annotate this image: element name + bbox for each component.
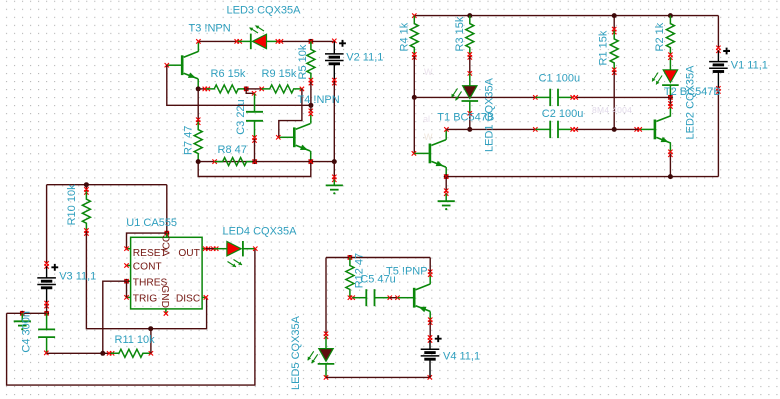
ground near C4 [14,320,31,322]
wire R10 to DISC [86,231,206,329]
wire junction to T1 base [413,97,415,153]
pin marks C1 right [571,95,575,99]
wire T1 collector to C2 [446,128,535,130]
battery pin V3 top [46,266,48,278]
pin marks T4 collector [309,109,313,113]
LED3 diode [238,40,251,42]
svg-text:R11 10k: R11 10k [115,334,156,346]
pin marks ground V2 [332,175,336,179]
pin mark R8 right [253,159,257,163]
resistor R2 [666,16,674,56]
pin marks R7 top [196,118,200,122]
battery pin V4 bottom [429,359,431,377]
pin mark C1 left [533,95,537,99]
wire junction to T2 collector [669,97,671,104]
LED3 light arrows [250,28,259,33]
capacitor C2 [549,121,551,138]
C5 right pin [375,297,390,299]
battery pin V1 top [717,51,719,62]
pin mark GND [164,311,168,315]
pin mark LED5 cathode [324,375,328,379]
pin mark R11 right [149,351,153,355]
battery V2 [325,53,344,55]
pin marks T5 emitter [428,318,432,322]
junction THRES riser / R11 [100,351,105,356]
wire lower loop [198,162,311,177]
pin marks R3 bottom [468,52,472,56]
pin mark C5 right [388,296,392,300]
wire R3 to LED1 [469,56,471,74]
wire OUT to LED4 [206,248,214,250]
junction T1 emitter / rail [444,174,449,179]
wire junction to R6 [198,88,206,90]
T2 emitter pin [669,143,671,153]
svg-text:W.: W. [424,67,435,77]
svg-text:LED5 CQX35A: LED5 CQX35A [290,315,302,390]
junction R12 top [347,255,352,260]
wire C3 bottom to rail [254,139,256,162]
wire junction row [7,312,47,314]
svg-text:T4 !NPN: T4 !NPN [298,94,340,106]
svg-text:C3 22u: C3 22u [235,99,247,134]
pin mark C2 left [533,127,537,131]
svg-text:R5 10k: R5 10k [297,44,309,79]
svg-text:R6 15k: R6 15k [211,68,246,80]
junction V3- / C4 [44,311,49,316]
pin mark CONT [124,263,128,267]
T4 collector pin [310,112,312,123]
LED1 (dark) [469,73,471,85]
svg-text:LED1 CQX35A: LED1 CQX35A [483,77,495,152]
resistor R6 [206,85,246,93]
svg-text:LED2 CQX35A: LED2 CQX35A [685,65,697,140]
pin marks C3 bottom [252,135,256,139]
pin marks T2 base [635,127,639,131]
pin marks T5 collector [428,270,432,274]
pin mark R6 right [244,87,248,91]
wire LED4 return loop [7,249,255,385]
svg-text:C5 47u: C5 47u [360,274,395,286]
pin mark V3- junction [44,311,48,315]
LED4 light arrows [234,260,243,265]
pin marks LED5 anode [324,332,328,336]
pin mark R9 right [300,87,304,91]
C4 bottom pin [46,337,48,353]
junction LED2 cathode / C1 row [668,95,673,100]
resistor R3 [466,16,474,56]
pin marks R1 top [612,27,616,31]
svg-text:R8 47: R8 47 [218,144,247,156]
junction R5 top [308,39,313,44]
pin marks LED3 cathode [235,39,239,43]
wire V1- down [717,91,719,177]
svg-text:C4 300n: C4 300n [21,311,33,353]
wire C1 row left [414,96,535,98]
C1 right pin [558,96,573,98]
op-amp U1 CA555 body [131,237,203,309]
resistor R12 [346,258,354,298]
LED2 (bright) [669,58,671,70]
wire rail to VCC [166,185,168,233]
svg-text:R9 15k: R9 15k [262,68,297,80]
pin marks R6 left [203,87,207,91]
wire rail to LED5 [325,258,327,335]
battery pin V4 top [429,340,431,349]
transistor T1 (NPN) [430,140,446,167]
junction T2 emitter / rail [668,174,673,179]
pin marks V3+ [44,261,48,265]
junction R8 right / C3 bottom [252,159,257,164]
wire bottom rail left circuit [198,161,334,163]
wire V3+ drop [46,185,48,265]
battery plus sign [723,48,730,55]
resistor R4 [410,16,418,56]
pin mark LED1 cathode [468,111,472,115]
pin marks V2- [332,78,336,82]
svg-text:R2 1k: R2 1k [654,22,666,51]
wire R9 to T4 base [279,89,302,137]
battery plus sign [435,335,442,342]
svg-text:VCC: VCC [162,235,173,257]
svg-text:OUT: OUT [178,248,200,259]
ground pin [333,180,335,186]
ground pin [445,194,447,202]
junction R7 bottom / rail [196,159,201,164]
resistor R5 [307,41,315,81]
pin marks R5 bottom [309,78,313,82]
pin mark T4 emitter [309,159,313,163]
pin marks R10 bottom [84,228,88,232]
pin mark T1 base [412,151,416,155]
svg-text:R7 47: R7 47 [183,126,195,155]
pin marks LED3 anode [276,39,280,43]
C1 left pin [535,96,550,98]
wire R6 junction to C3 top [246,89,254,93]
pin marks R4 bottom [412,52,416,56]
C5 left pin [352,297,366,299]
pin marks LED4 anode [211,247,215,251]
wire 555 top rail [47,184,167,186]
battery pin V2 top [333,41,335,54]
svg-text:TRIG: TRIG [133,294,157,305]
battery V3 [37,277,56,279]
pin mark T3 collector [196,39,200,43]
pin mark V2+ corner [332,39,336,43]
U1 OUT pin [202,248,206,250]
T2 base pin [639,128,654,130]
junction LED1 / T1 collector row [467,127,472,132]
wire junction to T4 collector [310,105,312,111]
battery plus sign [51,264,58,271]
svg-text:W: W [424,132,433,142]
ground pin [21,313,23,321]
ground under V2 [326,184,343,186]
pin mark R8 left [212,159,216,163]
svg-text:LED4 CQX35A: LED4 CQX35A [223,225,298,237]
pin marks V1+ [716,46,720,50]
svg-text:U1 CA555: U1 CA555 [126,217,177,229]
pin mark THRES [124,279,128,283]
battery pin V2 bottom [333,64,335,82]
svg-text:V3 11,1: V3 11,1 [59,270,96,282]
battery pin V1 bottom [717,72,719,90]
wire V3- to junction [46,305,48,313]
T1 collector pin [445,129,447,139]
junction R6 right / C3 [244,86,249,91]
junction long wire / R5 / T4 collector [308,103,313,108]
wire R4 to row [413,56,415,98]
pin mark T3 base [165,63,169,67]
junction R11 riser [148,326,153,331]
pin marks V3- [44,301,48,305]
wire THRES to R11 row [103,281,127,353]
ground under T1 [438,200,455,202]
pin marks ground T1 [444,189,448,193]
junction THRES [124,279,129,284]
C4 top pin [46,313,48,329]
wire LED5 to V4- [326,376,430,378]
wire rail to T5 collector [429,258,431,273]
T4 emitter pin [310,151,312,162]
wire LED3 to V2+ [279,40,334,42]
wire to ground V2 [333,162,335,179]
svg-text:CONT: CONT [133,262,162,273]
pin marks R11 left [107,351,111,355]
T5 base pin [398,297,414,299]
junction VCC / RESET [164,231,169,236]
pin mark R12 top [348,255,352,259]
wire R1 to C2 row [613,71,615,129]
resistor R1 [610,31,618,71]
wire T3 base run [167,65,311,105]
pin mark V4- [428,375,432,379]
svg-text:GND: GND [159,285,170,308]
junction R3 top [467,13,472,18]
pin mark C4 bottom [44,351,48,355]
T3 emitter pin [197,79,199,89]
pin marks V4+ [428,335,432,339]
wire LED1 cathode down [469,113,471,129]
junction T3 emitter [196,86,201,91]
T3 collector pin [197,41,199,51]
wire to ground T1 [445,177,447,192]
resistor R7 [194,122,202,162]
transistor T3 (NPN) [182,52,198,79]
wire C2 to T2 base [576,128,639,130]
svg-text:DISC: DISC [176,294,200,305]
pin marks R1 bottom [612,68,616,72]
capacitor C5 [365,289,367,306]
pin mark T5 base [395,296,399,300]
pin mark T1 emitter [444,174,448,178]
pin mark T1 collector [444,127,448,131]
svg-text:V4 11,1: V4 11,1 [443,351,480,363]
pin mark VCC [165,231,169,235]
wire V2- down [333,82,335,162]
LED4 diode [214,248,227,250]
capacitor C4 [38,328,55,330]
wire C5 to T5 base [390,297,398,299]
pin mark DISC [204,295,208,299]
pin mark LED1 anode [468,71,472,75]
junction R1 top [612,13,617,18]
pin mark R12 bottom [348,296,352,300]
C2 right pin [558,128,573,130]
pin mark LED2 cathode [668,95,672,99]
U1 RESET pin [127,248,131,250]
capacitor C3 [246,111,263,113]
svg-text:C1 100u: C1 100u [539,72,581,84]
junction ground tap [20,311,25,316]
svg-text:al: al [423,114,430,124]
junction R2 top [668,13,673,18]
pin mark T4 base [276,135,280,139]
U1 THRES pin [127,280,131,282]
U1 VCC pin [166,233,168,237]
wire junction to R11 [103,352,111,354]
wire V1+ drop [717,16,719,49]
junction R10 top [84,182,89,187]
T5 emitter pin [429,311,431,321]
pin marks T2 collector [668,101,672,105]
wire T3 emitter to R7 [197,89,199,122]
pin mark RESET [124,247,128,251]
svg-text:V1 11,1: V1 11,1 [731,59,768,71]
transistor T2 (NPN) [655,116,671,143]
T4 base pin [279,136,293,138]
wire T5 top rail [326,257,430,259]
wire R6 to R9 [246,88,262,90]
C3 bottom pin [254,121,256,139]
U1 TRIG pin [127,296,131,298]
resistor R10 [82,191,90,231]
pin mark R9 left [260,87,264,91]
wire rail to R1 [613,16,615,31]
pin mark TRIG [124,295,128,299]
resistor R11 [111,349,151,357]
junction R4 / C1 row [412,95,417,100]
pin marks OUT [203,247,207,251]
svg-text:R10 10k: R10 10k [66,184,78,225]
transistor T5 (PNP) [414,284,430,311]
resistor R8 [215,158,255,166]
pin marks R10 top [84,187,88,191]
svg-text:R4 1k: R4 1k [398,22,410,51]
wire T2 emitter down [669,153,671,176]
wire to R10 [85,185,87,192]
battery plus sign [339,40,346,47]
wire THRES to TRIG [126,281,128,297]
svg-text:V2 11,1: V2 11,1 [346,52,383,64]
svg-text:8M4 4004: 8M4 4004 [592,105,632,115]
U1 CONT pin [127,265,131,267]
resistor R9 [262,85,302,93]
wire top rail right circuit [414,15,718,17]
pin marks R2 bottom [668,53,672,57]
capacitor C1 [549,89,551,106]
pin mark R4 top [412,13,416,17]
svg-text:C2 100u: C2 100u [542,108,584,120]
svg-text:R1 15k: R1 15k [598,30,610,65]
junction T4 emitter / rail [308,159,313,164]
transistor T4 (NPN) [294,124,310,151]
wire C4 to R11 [47,352,103,354]
wire T3 collector to LED3 [198,40,237,42]
battery pin V3 bottom [46,288,48,305]
junction V2- rail [332,159,337,164]
junction R1 / C2 row [612,127,617,132]
pin mark C5 left [351,296,355,300]
wire C1 row right [576,96,671,98]
U1 GND pin [165,309,167,314]
T1 base pin line [414,152,428,154]
wire T5 emitter to V4+ [429,321,431,338]
pin marks C2 right [571,127,575,131]
wire emitter rail right circuit [446,176,718,178]
svg-text:LED3 CQX35A: LED3 CQX35A [227,5,302,17]
pin marks V1- [716,86,720,90]
pin marks T2 emitter [668,150,672,154]
wire R11 to DISC net [150,329,152,354]
T3 base pin [167,64,181,66]
C3 top pin [254,93,256,112]
battery V4 [421,348,440,350]
T5 collector pin [429,273,431,284]
svg-text:T3 !NPN: T3 !NPN [189,23,231,35]
U1 DISC pin [202,296,206,298]
T2 collector pin [669,105,671,116]
pin mark LED4 cathode [253,247,257,251]
battery V1 [709,61,728,63]
svg-text:R3 15k: R3 15k [454,16,466,51]
pin mark R5 top [309,39,313,43]
LED5 (dark) [325,336,327,348]
wire R5 bottom to junction [310,82,312,106]
wire VCC to RESET [127,233,167,249]
T1 emitter pin [445,167,447,177]
pin mark ground tap [20,311,24,315]
C2 left pin [535,128,550,130]
pin mark C3 top [252,91,256,95]
